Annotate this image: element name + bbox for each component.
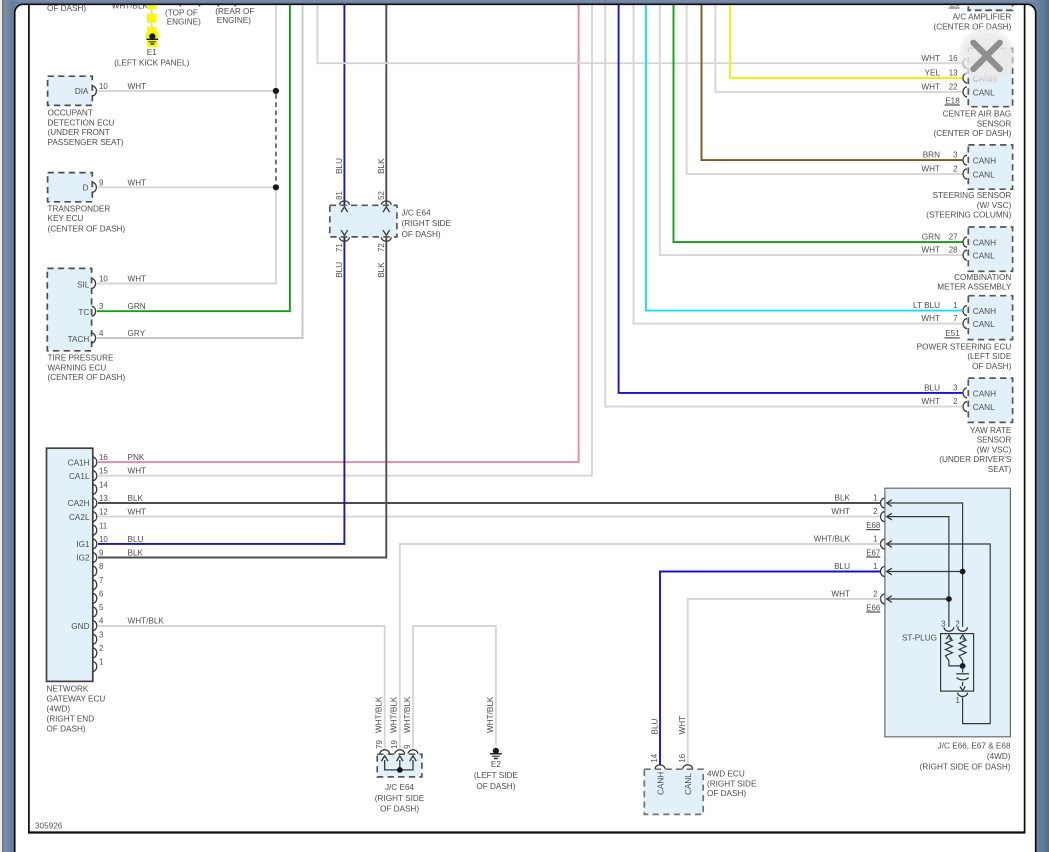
pin arc + arrow WHT/BLK 1 into J/C [881,539,885,549]
ground stub (REAR OF ENGINE) cut arc [218,0,236,6]
svg-text:BLK: BLK [128,494,144,503]
svg-text:CENTER AIR BAG: CENTER AIR BAG [943,110,1012,119]
svg-text:(4WD): (4WD) [47,704,71,713]
svg-text:3: 3 [941,620,946,629]
wire WHT/BLK pin4 GND to J/C E64 pin 79 [98,626,385,750]
svg-text:D: D [83,183,89,192]
svg-text:(W/ VSC): (W/ VSC) [977,201,1012,210]
svg-text:7: 7 [99,576,103,585]
ECU box TRANSPONDER KEY ECU (D) [48,173,93,202]
pin 6 arc of NETWORK GATEWAY ECU [93,594,97,604]
svg-text:16: 16 [99,453,108,462]
svg-text:4: 4 [99,329,104,338]
ST-PLUG pin 3 cup [944,627,954,631]
wire WHT to E18 SIL [317,5,962,63]
svg-text:305926: 305926 [35,821,63,830]
pin 13 arc of NETWORK GATEWAY ECU [93,498,97,508]
svg-text:TIRE PRESSURE: TIRE PRESSURE [48,354,115,363]
svg-text:WHT: WHT [128,82,147,91]
svg-text:(RIGHT SIDE OF DASH): (RIGHT SIDE OF DASH) [920,763,1011,772]
svg-text:(RIGHT SIDE: (RIGHT SIDE [707,779,757,788]
svg-text:WHT: WHT [831,590,850,599]
connector box 4WD ECU [644,769,703,814]
svg-text:13: 13 [949,69,958,78]
svg-text:27: 27 [949,233,958,242]
svg-text:9: 9 [99,549,104,558]
svg-text:WHT: WHT [128,508,147,517]
svg-text:WHT/BLK: WHT/BLK [486,696,495,733]
svg-text:WHT: WHT [128,275,147,284]
pin 16 arc of NETWORK GATEWAY ECU [93,457,97,467]
svg-text:72: 72 [377,243,386,252]
svg-text:BLU: BLU [335,262,344,278]
node dot resistors junction [960,663,966,669]
svg-text:ENGINE): ENGINE) [217,16,251,25]
svg-text:J/C E64: J/C E64 [402,209,432,218]
window chrome band left [0,0,15,852]
svg-text:WHT: WHT [921,83,940,92]
svg-text:4WD ECU: 4WD ECU [707,770,745,779]
ground stub (TOP OF ENGINE) cut arc [180,0,200,6]
svg-text:POWER STEERING ECU: POWER STEERING ECU [917,342,1012,351]
junction box J/C E64 (upper) [330,205,397,237]
connector box STEERING SENSOR [968,145,1012,189]
svg-text:(CENTER OF DASH): (CENTER OF DASH) [48,373,126,382]
svg-text:WHT: WHT [128,467,147,476]
svg-text:PNK: PNK [128,453,145,462]
window chrome band right [1035,0,1049,852]
svg-text:CA2L: CA2L [69,513,90,522]
pin 71 arc bottom [340,237,350,241]
svg-text:E66: E66 [866,603,881,612]
svg-text:WARNING ECU: WARNING ECU [48,363,107,372]
svg-text:IG1: IG1 [76,540,90,549]
wire WHT/BLK staple from J/C E64 pin 9 to ground E2 [413,626,496,750]
svg-text:COMBINATION: COMBINATION [954,273,1011,282]
svg-text:14: 14 [99,480,108,489]
svg-text:NETWORK: NETWORK [47,684,89,693]
junction box J/C E64 (lower) [377,754,422,777]
wire GRN from TC pin 3 [97,5,290,311]
connector box COMBINATION METER [968,227,1012,271]
pin 12 arc of NETWORK GATEWAY ECU [93,512,97,522]
svg-text:GRN: GRN [922,233,940,242]
internal wire row5 WHT joins pin3 column [887,598,949,600]
svg-text:5: 5 [99,603,104,612]
svg-text:(LEFT SIDE: (LEFT SIDE [474,771,519,780]
svg-text:2: 2 [953,397,957,406]
connector box A/C AMPLIFIER (cut off at top) [968,0,1012,10]
svg-text:WHT/BLK: WHT/BLK [403,696,412,733]
svg-text:YAW RATE: YAW RATE [970,426,1012,435]
svg-text:WHT: WHT [921,246,940,255]
pin 3 arc TC [92,306,96,316]
svg-text:WHT: WHT [921,397,940,406]
svg-text:2: 2 [873,507,877,516]
svg-text:GRY: GRY [128,329,146,338]
svg-text:OF DASH): OF DASH) [707,789,746,798]
node junction dot B [273,184,279,190]
svg-text:2: 2 [99,644,103,653]
dashed link wire between junctions A and B [275,94,277,184]
wire BLU pin10 IG1 from top [98,5,344,544]
band corner fillets [14,4,25,15]
svg-text:16: 16 [678,753,687,762]
ECU box TIRE PRESSURE WARNING ECU [47,268,91,350]
svg-text:CANH: CANH [973,389,996,398]
svg-text:3: 3 [99,630,104,639]
svg-text:IG2: IG2 [76,554,90,563]
pin 10 arc of DIA [92,86,96,96]
svg-text:CANL: CANL [973,403,995,412]
svg-text:(UNDER DRIVER'S: (UNDER DRIVER'S [939,455,1012,464]
svg-text:WHT/BLK: WHT/BLK [814,535,851,544]
svg-text:22: 22 [949,83,958,92]
svg-text:E18: E18 [945,96,960,105]
svg-text:CANL: CANL [973,88,995,97]
svg-text:1: 1 [873,494,877,503]
svg-text:2: 2 [953,165,957,174]
svg-text:CANL: CANL [973,320,995,329]
wire WHT to combination meter CANL [660,5,963,255]
svg-text:GRN: GRN [128,302,146,311]
svg-text:WHT: WHT [128,178,147,187]
svg-text:11: 11 [99,521,107,530]
pin 9 arc + arrow of J/C E64 lower [408,750,418,754]
wire WHT to power steering CANL [634,5,963,324]
svg-text:OCCUPANT: OCCUPANT [48,109,93,118]
feed-through arrows BLU [341,207,348,212]
pin 8 arc of NETWORK GATEWAY ECU [93,566,97,576]
svg-text:(W/ VSC): (W/ VSC) [977,445,1012,454]
svg-text:CANH: CANH [973,307,996,316]
wire WHT/BLK to ground E1 [151,5,153,33]
svg-text:10: 10 [99,82,108,91]
svg-text:YEL: YEL [925,69,941,78]
junction box J/C E66 E67 E68 [885,488,1011,737]
svg-text:WHT: WHT [831,507,850,516]
svg-text:(CENTER OF DASH): (CENTER OF DASH) [48,225,126,234]
svg-text:8: 8 [99,562,104,571]
pin 9 arc of NETWORK GATEWAY ECU [93,553,97,563]
ST-PLUG pin 2 cup [958,627,968,631]
svg-text:81: 81 [335,191,344,200]
svg-text:LT BLU: LT BLU [913,301,940,310]
wire GRN to combination meter CANH [674,5,963,242]
svg-text:BLU: BLU [128,535,144,544]
svg-text:DIA: DIA [75,87,89,96]
pin 15 arc of NETWORK GATEWAY ECU [93,471,97,481]
pin 16 arc of 4WD ECU [683,765,693,769]
svg-text:(CENTER OF DASH): (CENTER OF DASH) [934,22,1012,31]
pin 5 arc of NETWORK GATEWAY ECU [93,607,97,617]
wire WHT pin12 CA2L to J/C E68 [98,516,880,518]
internal wire row1 BLK to ST-PLUG pin2 [887,503,963,627]
pin 4 arc TACH [92,333,96,343]
wire BLK pin13 CA2H to J/C E68 [98,502,880,504]
svg-text:OF DASH): OF DASH) [380,804,419,813]
svg-text:1: 1 [873,562,877,571]
svg-text:SIL: SIL [77,280,90,289]
ST-PLUG box [941,634,974,692]
svg-text:GATEWAY ECU: GATEWAY ECU [47,694,106,703]
wire BRN to steering sensor CANH [702,5,963,160]
ECU box OCCUPANT DETECTION ECU (DIA) [48,76,93,105]
close button circle [957,27,1016,86]
svg-text:13: 13 [99,494,108,503]
wire BLU from 4WD ECU CANH to J/C E66 [660,572,880,765]
svg-text:CANL: CANL [684,773,693,795]
svg-text:3: 3 [953,151,958,160]
window chrome band top [0,0,1049,4]
pin 3 arc of NETWORK GATEWAY ECU [93,634,97,644]
svg-text:DETECTION ECU: DETECTION ECU [48,118,115,127]
svg-text:CANL: CANL [973,170,995,179]
pin 1 arc of NETWORK GATEWAY ECU [93,662,97,672]
svg-text:OF DASH): OF DASH) [476,782,515,791]
svg-text:(RIGHT SIDE: (RIGHT SIDE [375,794,425,803]
svg-text:16: 16 [949,54,958,63]
internal wire row3 WHT/BLK loop [887,544,991,724]
svg-text:3: 3 [99,302,104,311]
wire WHT pin15 CA1L [98,5,592,476]
svg-text:WHT/BLK: WHT/BLK [128,617,165,626]
pin 4 arc of NETWORK GATEWAY ECU [93,621,97,631]
svg-text:7: 7 [953,314,957,323]
svg-text:CA1L: CA1L [69,472,90,481]
svg-text:ST-PLUG: ST-PLUG [902,634,937,643]
node junction dot A [273,88,279,94]
svg-text:10: 10 [99,275,108,284]
svg-text:12: 12 [99,508,108,517]
svg-text:WHT: WHT [921,314,940,323]
ground E1 symbol [149,33,155,39]
pin arc + arrow WHT 2 into J/C [881,512,885,522]
svg-text:BLK: BLK [835,494,851,503]
wire WHT/BLK from J/C E66 row3 down to J/C E64 pin 19 [400,544,880,750]
internal wire row2 WHT to ST-PLUG pin3 [887,517,949,627]
pin 79 arc + arrow of J/C E64 lower [380,750,390,754]
svg-text:CANH: CANH [656,772,665,795]
svg-text:J/C E66, E67 & E68: J/C E66, E67 & E68 [938,741,1011,750]
svg-text:E67: E67 [866,548,880,557]
pin 14 arc of NETWORK GATEWAY ECU [93,484,97,494]
pin arc + arrow WHT 2 into J/C [881,594,885,604]
pin 14 arc of 4WD ECU [655,765,665,769]
svg-text:(UNDER FRONT: (UNDER FRONT [48,128,110,137]
wire BLU to yaw rate CANH [619,5,963,393]
svg-text:(CENTER OF DASH): (CENTER OF DASH) [934,129,1012,138]
wire WHT from DIA pin 10 [97,90,276,92]
svg-text:CANH: CANH [973,239,996,248]
yellow highlight on E1 wire [147,5,157,31]
svg-text:1: 1 [953,301,957,310]
svg-text:1: 1 [99,658,103,667]
wire WHT vertical from top to junction A [275,5,277,88]
svg-text:WHT: WHT [678,716,687,735]
node dot J/C E64 bus [397,767,403,773]
svg-text:19: 19 [390,740,399,749]
svg-text:(STEERING COLUMN): (STEERING COLUMN) [926,211,1011,220]
svg-text:1: 1 [873,535,877,544]
wire WHT to steering sensor CANL [687,5,963,174]
svg-text:WHT: WHT [921,54,940,63]
svg-text:71: 71 [335,243,344,252]
svg-text:TACH: TACH [68,335,90,344]
wire PNK pin16 CA1H [98,5,579,462]
svg-text:CANH: CANH [973,157,996,166]
svg-text:6: 6 [99,589,104,598]
svg-text:2: 2 [955,620,959,629]
svg-text:CA1H: CA1H [68,458,90,467]
connector box YAW RATE SENSOR [968,378,1012,422]
inner diagram border [28,5,30,833]
svg-text:OF DASH): OF DASH) [402,230,441,239]
svg-text:E51: E51 [945,329,960,338]
svg-text:10: 10 [99,535,108,544]
capacitor C termination [962,666,964,673]
svg-text:BLU: BLU [335,158,344,174]
svg-text:ENGINE): ENGINE) [167,18,201,27]
pin 10 arc SIL [92,279,96,289]
connector box CENTER AIR BAG SENSOR E18 [968,48,1012,106]
svg-text:J/C E64: J/C E64 [385,783,415,792]
svg-text:9: 9 [403,744,412,749]
svg-text:(TOP OF: (TOP OF [165,9,198,18]
svg-text:BLU: BLU [834,562,850,571]
svg-text:E68: E68 [866,521,881,530]
svg-text:(RIGHT SIDE: (RIGHT SIDE [402,219,452,228]
svg-text:(LEFT KICK PANEL): (LEFT KICK PANEL) [114,58,189,67]
internal bus of J/C E64 lower [385,760,413,770]
svg-text:WHT/BLK: WHT/BLK [375,696,384,733]
svg-text:TRANSPONDER: TRANSPONDER [48,204,111,213]
svg-text:STEERING SENSOR: STEERING SENSOR [933,191,1012,200]
svg-text:14: 14 [650,753,659,762]
svg-text:GND: GND [71,622,89,631]
svg-text:CA2H: CA2H [68,499,90,508]
svg-text:SEAT): SEAT) [988,465,1012,474]
pin 52 arc top [381,201,391,205]
svg-text:BLK: BLK [377,158,386,174]
svg-text:9: 9 [99,178,104,187]
svg-text:WHT: WHT [921,165,940,174]
svg-text:KEY ECU: KEY ECU [48,214,84,223]
svg-text:BLU: BLU [924,384,940,393]
svg-text:BLU: BLU [650,718,659,734]
svg-text:(RIGHT END: (RIGHT END [47,714,95,723]
pin 10 arc of NETWORK GATEWAY ECU [93,539,97,549]
close button X icon [973,43,999,69]
svg-text:CANL: CANL [973,252,995,261]
pin arc + arrow BLK 1 into J/C [881,498,885,508]
pin 2 arc of NETWORK GATEWAY ECU [93,648,97,658]
pin arc + arrow BLU 1 into J/C [881,567,885,577]
wire WHT from junction B down to SIL row [97,191,276,284]
svg-text:PASSENGER SEAT): PASSENGER SEAT) [48,138,124,147]
svg-text:WHT/BLK: WHT/BLK [390,696,399,733]
internal wire row4 BLU joins pin2 column [887,571,963,573]
svg-text:TC: TC [78,308,89,317]
pin 11 arc of NETWORK GATEWAY ECU [93,525,97,535]
wire GRY from TACH pin 4 [97,5,303,338]
svg-text:OF DASH): OF DASH) [47,4,86,13]
wire YEL to E18 CANH [730,5,962,78]
svg-text:1: 1 [956,696,960,705]
svg-text:BRN: BRN [923,151,940,160]
svg-text:BLK: BLK [128,549,144,558]
wire BLK pin9 IG2 from top [98,5,386,558]
svg-text:SENSOR: SENSOR [977,436,1012,445]
wire LT BLU to power steering CANH [646,5,962,311]
svg-text:(REAR OF: (REAR OF [215,7,254,16]
svg-text:SENSOR: SENSOR [977,119,1012,128]
svg-text:52: 52 [377,191,386,200]
feed-through arrows BLK [383,207,390,212]
svg-text:4: 4 [99,617,104,626]
left window edge strips [0,0,2,852]
pin 81 arc top [340,201,350,205]
svg-text:E1: E1 [147,48,157,57]
svg-text:METER ASSEMBLY: METER ASSEMBLY [937,283,1012,292]
wire WHT from 4WD ECU CANL to J/C E66 [688,599,881,765]
svg-text:(LEFT SIDE: (LEFT SIDE [967,352,1012,361]
pin 9 arc of D [92,182,96,192]
svg-text:15: 15 [99,467,108,476]
svg-text:BLK: BLK [377,262,386,278]
svg-text:2: 2 [873,590,877,599]
svg-text:E2: E2 [491,760,501,769]
svg-text:A/C AMPLIFIER: A/C AMPLIFIER [953,12,1012,21]
wire WHT to E18 CANL [715,5,962,92]
pin 7 arc of NETWORK GATEWAY ECU [93,580,97,590]
ground E2 symbol [493,748,499,754]
connector box POWER STEERING ECU E51 [968,296,1012,340]
wire WHT to yaw rate CANL [605,5,962,407]
svg-text:79: 79 [375,740,384,749]
resistor R right (pin2) [960,635,965,639]
svg-text:28: 28 [949,246,958,255]
resistor R left (pin3) [946,635,951,639]
svg-text:3: 3 [953,384,958,393]
svg-text:OF DASH): OF DASH) [972,362,1011,371]
ST-PLUG pin 1 cup below box [958,693,968,697]
pin 19 arc + arrow of J/C E64 lower [395,750,405,754]
svg-text:OF DASH): OF DASH) [47,724,86,733]
wire WHT from D pin 9 [97,186,276,188]
svg-text:(4WD): (4WD) [987,752,1011,761]
ECU box NETWORK GATEWAY ECU [47,448,93,681]
pin 72 arc bottom [381,237,391,241]
